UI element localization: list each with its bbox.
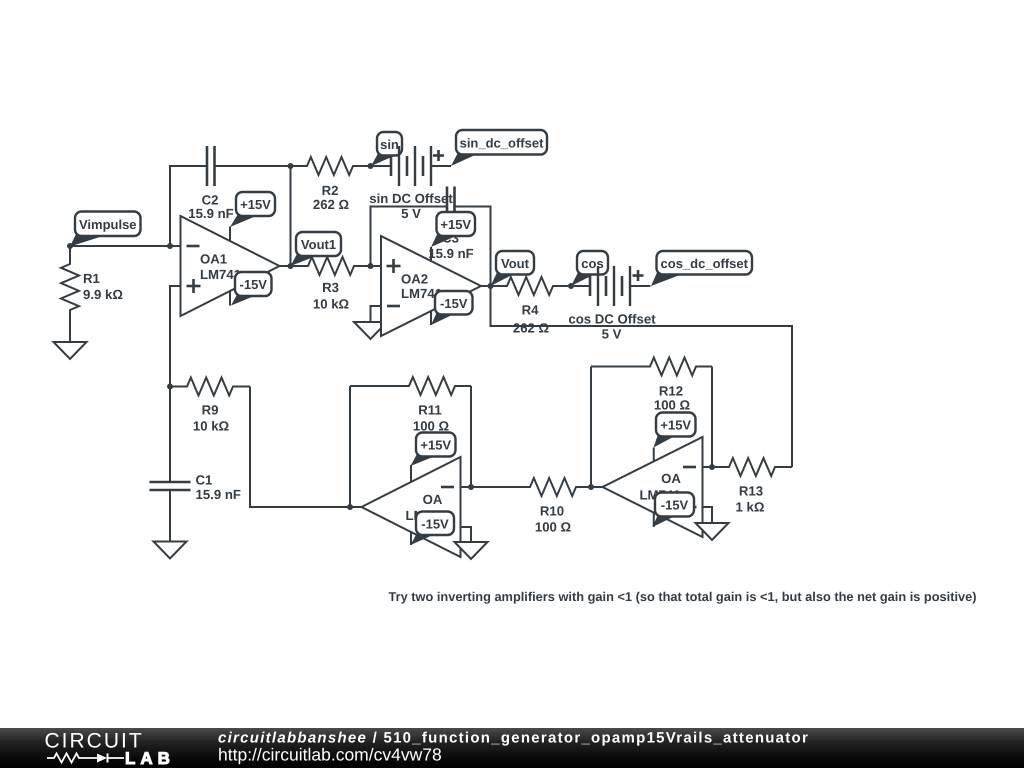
svg-text:OA: OA [661, 471, 681, 486]
wire OA3 + input to ground [461, 527, 472, 542]
wire OA3 output node left to R9 corner [250, 387, 350, 508]
op-amp OA3 LM741 (mirrored) [362, 457, 461, 557]
svg-text:262 Ω: 262 Ω [513, 321, 550, 336]
wire OA4 - input pin [704, 466, 713, 468]
power flag -15V OA1 [231, 295, 253, 306]
node flag cos [571, 273, 594, 287]
op-amp OA1 LM741 [181, 216, 280, 316]
svg-text:R11: R11 [418, 403, 441, 418]
svg-text:10 kΩ: 10 kΩ [313, 297, 350, 312]
capacitor C3 [446, 187, 449, 227]
svg-text:10 kΩ: 10 kΩ [193, 419, 230, 434]
resistor R10 [471, 478, 591, 496]
wire OA4 output to node [591, 486, 603, 488]
svg-text:OA2: OA2 [401, 272, 428, 287]
resistor R9 [170, 378, 250, 396]
OA4 power stubs [653, 448, 655, 463]
wire OA3 output to node [350, 506, 362, 508]
node junction dots [67, 243, 73, 249]
node flag Vout [491, 273, 514, 287]
resistor R12 [591, 358, 712, 376]
resistor R13 [712, 458, 792, 476]
ground at OA2 - input [354, 322, 387, 339]
svg-text:+15V: +15V [440, 217, 471, 232]
ground below C1 [154, 542, 187, 559]
OA1 power stubs [229, 227, 231, 241]
svg-text:+15V: +15V [420, 438, 451, 453]
wire C3 branch from OA2 + node [371, 207, 448, 267]
node flag Vout1 [291, 254, 316, 266]
svg-text:-15V: -15V [661, 498, 689, 513]
svg-text:5 V: 5 V [602, 327, 622, 342]
svg-text:-15V: -15V [440, 296, 468, 311]
svg-text:-15V: -15V [421, 516, 449, 531]
svg-text:+15V: +15V [240, 197, 271, 212]
svg-text:Vout: Vout [501, 256, 530, 271]
wire R11 feedback loop [470, 386, 472, 487]
svg-text:R3: R3 [322, 280, 339, 295]
svg-text:100 Ω: 100 Ω [654, 398, 691, 413]
svg-text:R9: R9 [202, 403, 219, 418]
ground below R1 [54, 342, 87, 359]
power flag -15V OA2 [431, 312, 453, 325]
svg-text:cos DC Offset: cos DC Offset [568, 312, 656, 327]
wire Vout node down and right to R13 [491, 286, 793, 467]
ground at OA4 + input [696, 523, 729, 540]
power flag +15V OA2 [431, 234, 456, 248]
svg-text:15.9 nF: 15.9 nF [196, 487, 241, 502]
svg-text:R10: R10 [540, 504, 564, 519]
resistor R11 [350, 377, 471, 395]
node flag Vimpulse [70, 234, 103, 247]
svg-text:Vout1: Vout1 [301, 237, 336, 252]
svg-text:9.9 kΩ: 9.9 kΩ [83, 287, 123, 302]
ground at OA3 + input [455, 542, 488, 559]
power flag -15V OA4 [653, 515, 675, 528]
power flag -15V OA3 [411, 533, 434, 545]
svg-text:100 Ω: 100 Ω [535, 520, 572, 535]
resistor R2 [291, 157, 371, 175]
node flag cos_dc_offset [651, 273, 681, 287]
svg-text:C1: C1 [196, 473, 213, 488]
svg-text:Try two inverting amplifiers w: Try two inverting amplifiers with gain <… [389, 589, 977, 604]
op-amp OA4 LM741 (mirrored) [603, 437, 703, 537]
svg-text:+15V: +15V [660, 418, 691, 433]
svg-text:262 Ω: 262 Ω [313, 197, 350, 212]
power flag +15V OA3 [411, 454, 435, 466]
svg-text:R2: R2 [322, 183, 339, 198]
wire C2 node down to OA1 output [290, 166, 292, 266]
wire OA1 + input and left vertical rail [170, 286, 181, 482]
svg-text:1 kΩ: 1 kΩ [736, 500, 765, 515]
wire OA2 output [481, 285, 491, 287]
wire C3 right side down to Vout node [455, 207, 491, 287]
power flag +15V OA1 [230, 214, 255, 227]
power flag +15V OA4 [654, 435, 675, 448]
battery V sin DC Offset [371, 165, 392, 167]
wire OA1 output [280, 265, 291, 267]
wire C2 left branch [170, 166, 207, 246]
svg-text:15.9 nF: 15.9 nF [188, 206, 233, 221]
svg-text:LAB: LAB [125, 749, 175, 768]
battery V cos DC Offset [571, 285, 590, 287]
svg-text:Vimpulse: Vimpulse [79, 217, 137, 232]
svg-text:15.9 nF: 15.9 nF [428, 246, 473, 261]
wire R3 node to OA2 + input [371, 265, 382, 267]
OA3 power stubs [410, 465, 412, 482]
wire OA4 + input to ground [703, 507, 713, 523]
resistor R3 [291, 257, 371, 275]
op-amp OA2 LM741 [381, 236, 481, 336]
svg-text:R1: R1 [83, 271, 100, 286]
svg-text:sin_dc_offset: sin_dc_offset [460, 135, 544, 150]
svg-text:cos: cos [581, 256, 603, 271]
wire Vimpulse node to OA1 inverting input [70, 245, 181, 247]
svg-text:sin DC Offset: sin DC Offset [369, 191, 453, 206]
wire OA3 - input pin [461, 486, 472, 488]
resistor R1 [61, 246, 79, 342]
svg-text:R13: R13 [739, 484, 763, 499]
wire C1 bottom to ground [169, 490, 171, 542]
svg-text:OA1: OA1 [200, 251, 227, 266]
resistor R4 [491, 277, 572, 295]
svg-text:sin: sin [380, 137, 399, 152]
node flag sin [371, 154, 394, 167]
svg-text:-15V: -15V [240, 277, 268, 292]
svg-text:circuitlabbanshee / 510_functi: circuitlabbanshee / 510_function_generat… [218, 729, 809, 746]
node flag sin_dc_offset [451, 153, 475, 167]
footer bar [0, 728, 1024, 768]
wire R12 feedback loop [711, 367, 713, 468]
svg-text:R4: R4 [522, 303, 540, 318]
svg-text:5 V: 5 V [401, 206, 421, 221]
svg-text:R12: R12 [659, 384, 683, 399]
svg-text:cos_dc_offset: cos_dc_offset [661, 256, 749, 271]
wire OA2 - input to ground [371, 306, 382, 322]
svg-text:http://circuitlab.com/cv4vw78: http://circuitlab.com/cv4vw78 [218, 745, 442, 765]
capacitor C2 [206, 146, 209, 186]
wire C2 right to node [215, 165, 291, 167]
svg-text:100 Ω: 100 Ω [413, 419, 450, 434]
svg-text:OA: OA [423, 492, 443, 507]
capacitor C1 [150, 481, 191, 484]
OA2 power stubs [430, 247, 432, 261]
